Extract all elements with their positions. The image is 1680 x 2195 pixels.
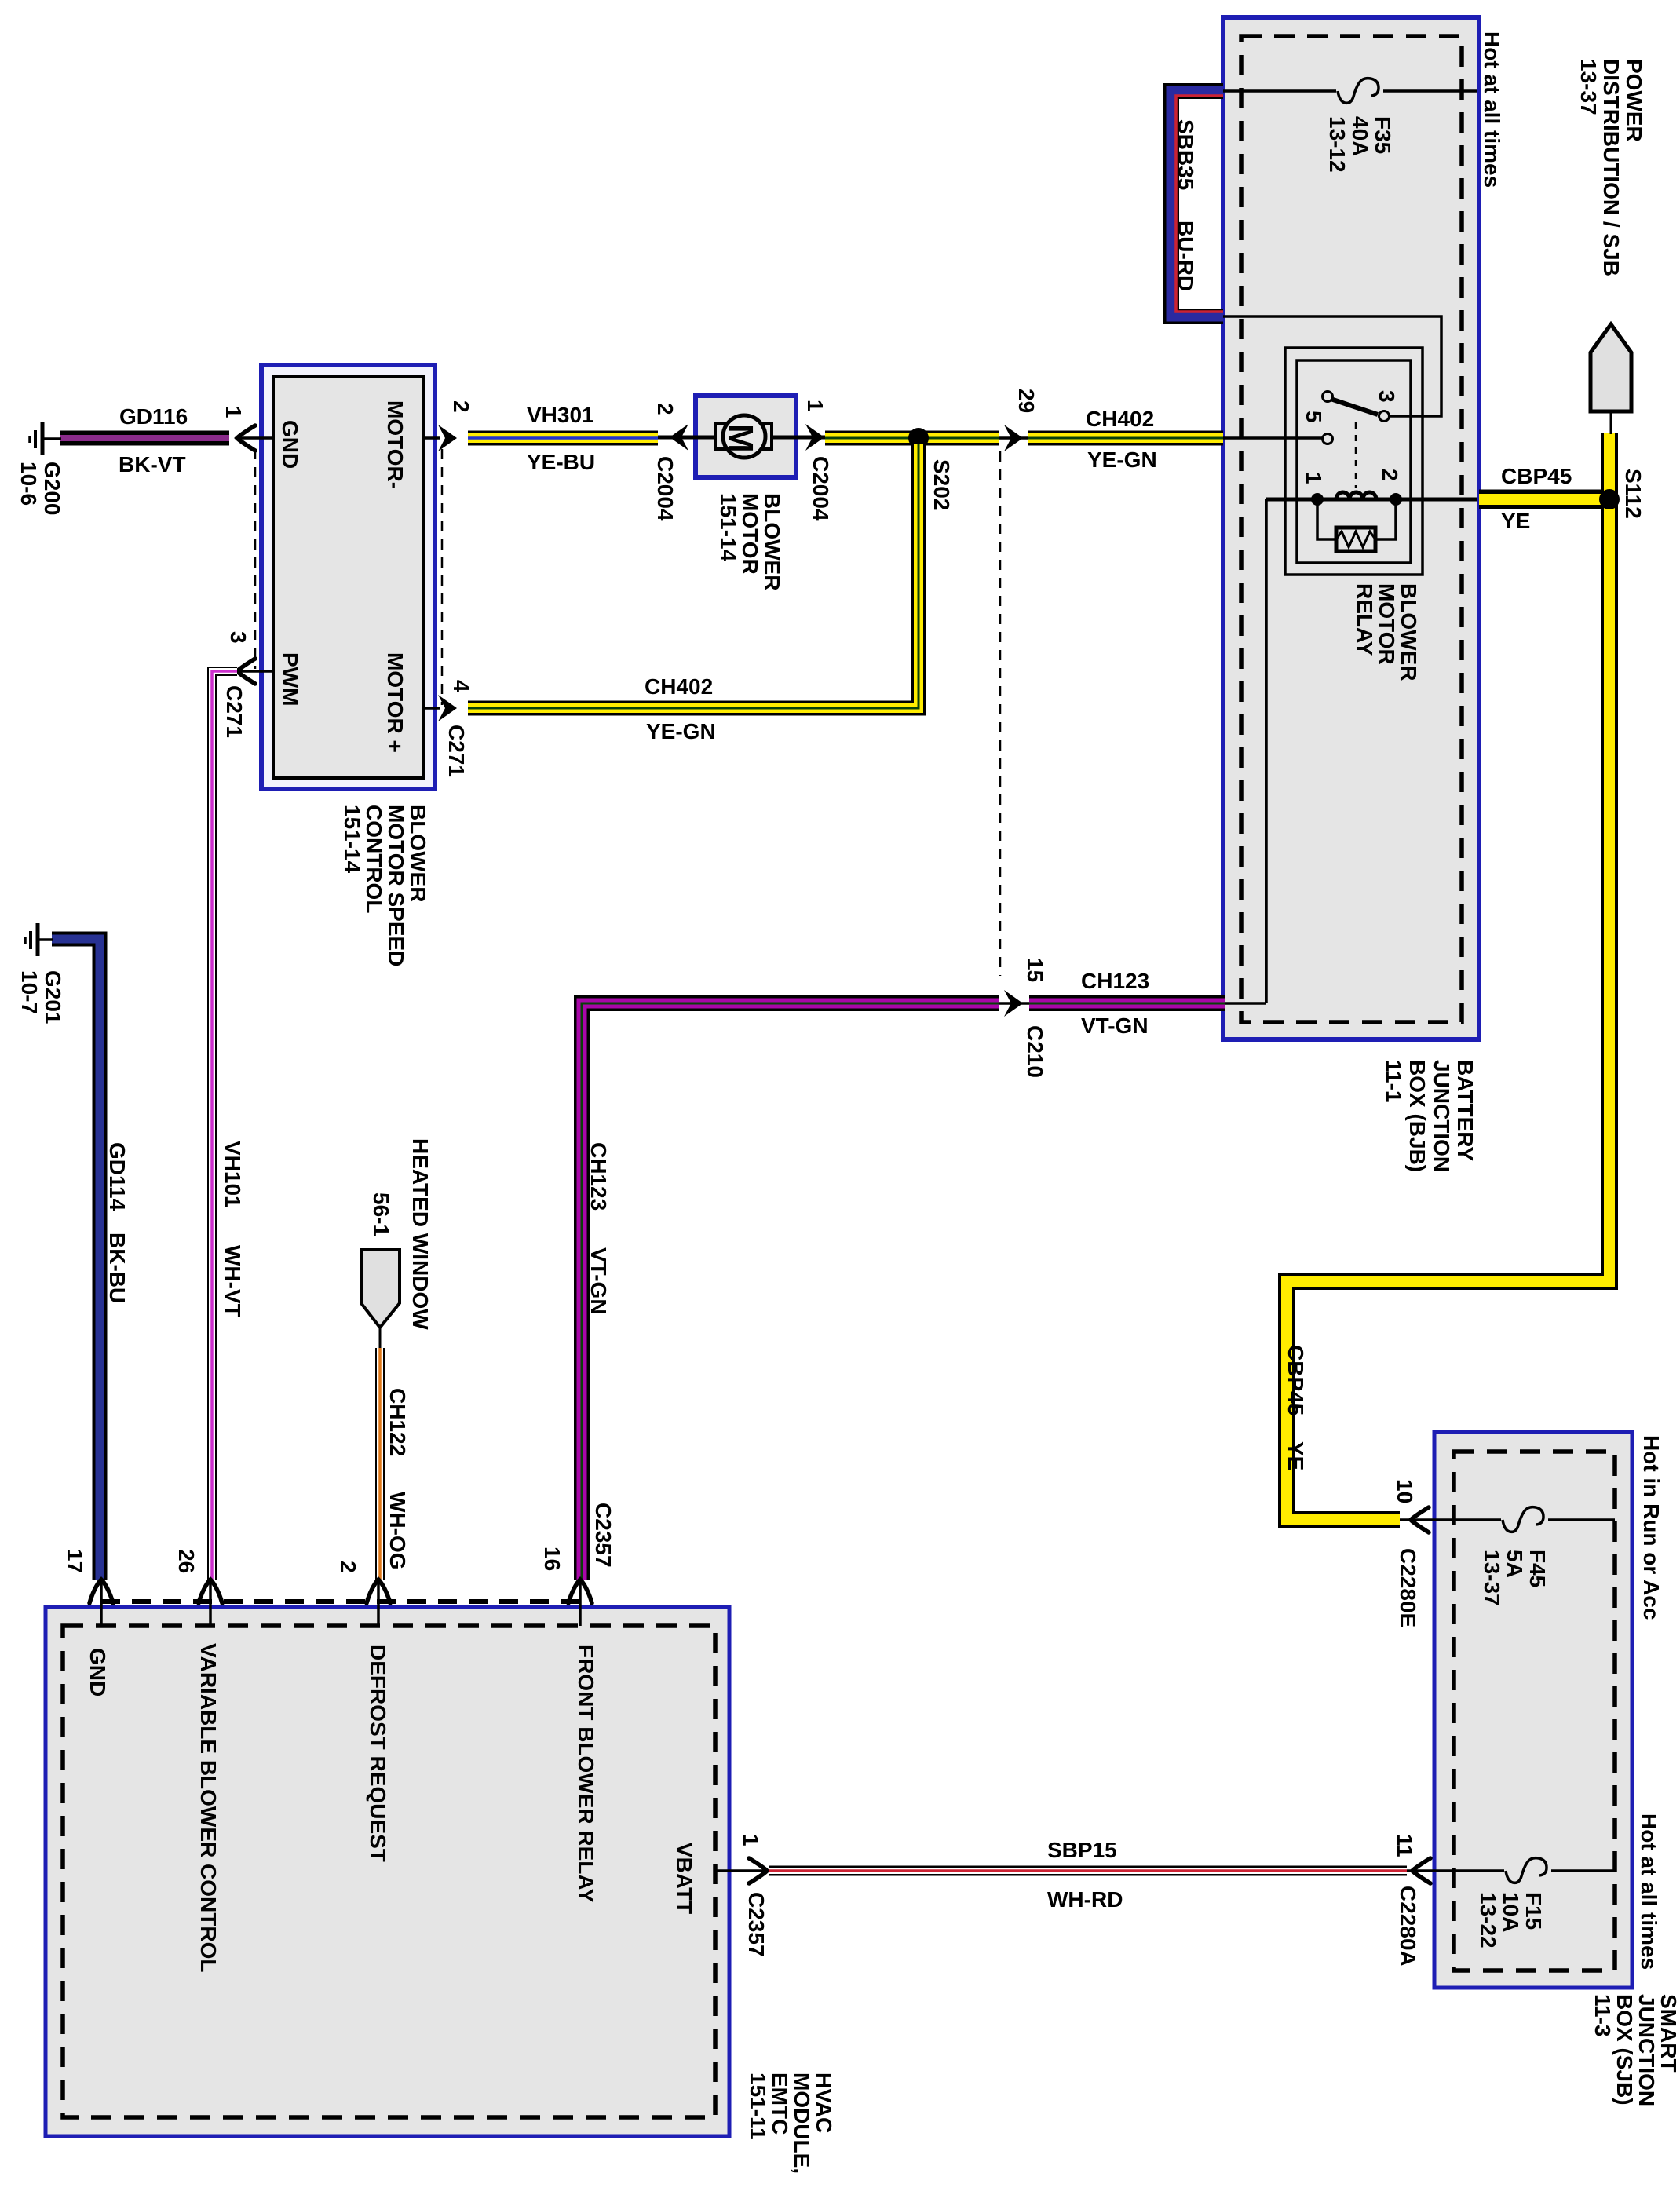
wire label CH402 YE-GN (at BJB) (1086, 407, 1157, 472)
wire: relay feed from SBB35 to relay pin 3 (1223, 316, 1441, 416)
svg-text:VBATT: VBATT (672, 1843, 696, 1914)
svg-text:MOTOR: MOTOR (1375, 583, 1399, 665)
svg-text:26: 26 (174, 1549, 199, 1573)
svg-text:BU-RD: BU-RD (1174, 221, 1198, 291)
svg-text:16: 16 (540, 1547, 564, 1571)
fuse F35 (1338, 79, 1379, 104)
wire: relay coil bus to CBP45 (1266, 498, 1477, 502)
battery junction box (BJB) outline (1223, 17, 1479, 1039)
svg-text:13-37: 13-37 (1576, 59, 1601, 115)
wire label GD116 BK-VT (119, 404, 188, 477)
svg-text:11-1: 11-1 (1382, 1060, 1406, 1103)
svg-text:BATTERY: BATTERY (1453, 1060, 1477, 1161)
svg-text:29: 29 (1014, 389, 1039, 413)
svg-text:3: 3 (1375, 390, 1399, 403)
svg-text:S112: S112 (1621, 469, 1645, 519)
svg-text:CBP45: CBP45 (1501, 464, 1572, 488)
wire label CH123 VT-GN (vertical) (586, 1142, 611, 1315)
svg-text:VH101: VH101 (221, 1141, 245, 1208)
connector C210 stem (999, 1002, 1029, 1005)
wire SBP15 WH-RD (769, 1866, 1407, 1876)
wire label CBP45 YE (vertical run) (1284, 1345, 1308, 1470)
connector arrow pin 26 (199, 1580, 222, 1603)
svg-text:MOTOR-: MOTOR- (383, 400, 407, 489)
fuse F15 (1506, 1858, 1547, 1883)
svg-text:MOTOR +: MOTOR + (383, 652, 407, 753)
svg-text:VT-GN: VT-GN (1081, 1013, 1149, 1038)
pin 2 stem (377, 1580, 380, 1626)
svg-text:JUNCTION: JUNCTION (1430, 1060, 1454, 1172)
svg-text:F15: F15 (1521, 1892, 1546, 1930)
blower motor speed control box (261, 365, 435, 789)
svg-text:1: 1 (1302, 472, 1326, 484)
wire: relay coil return to CH123 (inside BJB) (1225, 499, 1266, 1003)
svg-text:YE-BU: YE-BU (527, 450, 595, 474)
svg-text:151-14: 151-14 (716, 493, 740, 562)
svg-text:SMART: SMART (1656, 1994, 1680, 2073)
svg-text:G200: G200 (40, 462, 64, 516)
svg-text:1: 1 (221, 406, 246, 418)
svg-text:CH123: CH123 (1081, 969, 1149, 993)
svg-text:YE-GN: YE-GN (646, 719, 716, 743)
blower motor brush (right) (759, 423, 772, 449)
svg-text:Hot in Run or Acc: Hot in Run or Acc (1639, 1435, 1664, 1620)
HVAC module box (46, 1607, 729, 2136)
relay switch pivot contact (1323, 392, 1333, 402)
svg-text:10-6: 10-6 (16, 462, 41, 506)
wire label CH123 VT-GN (horizontal) (1081, 969, 1149, 1038)
svg-text:CONTROL: CONTROL (362, 805, 386, 913)
connector arrow pin 2 (MOTOR-) (438, 425, 457, 451)
svg-text:C271: C271 (444, 725, 469, 777)
wire CBP45 YE main run (S112 down to SJB pin 10) (1287, 433, 1609, 1520)
wire label VH101 WH-VT (221, 1141, 245, 1317)
wire CH123 VT-GN (C210 into BJB) (1029, 995, 1225, 1011)
svg-text:F35: F35 (1371, 116, 1395, 154)
resistor (relay suppression) (1336, 528, 1375, 551)
svg-text:C2280E: C2280E (1396, 1548, 1420, 1627)
svg-text:PWM: PWM (278, 652, 302, 706)
motor label BLOWER MOTOR 151-14 (716, 493, 784, 590)
svg-text:G201: G201 (41, 970, 65, 1024)
svg-text:BLOWER: BLOWER (760, 493, 784, 590)
svg-text:13-12: 13-12 (1325, 116, 1349, 173)
wire label VH301 YE-BU (527, 403, 595, 474)
fuse F45 (1503, 1507, 1543, 1532)
svg-text:GND: GND (278, 420, 302, 469)
wire label CBP45 YE (horizontal) (1501, 464, 1572, 533)
svg-text:CH402: CH402 (1086, 407, 1154, 431)
svg-text:10-7: 10-7 (17, 970, 42, 1014)
motor internal leads (696, 436, 796, 440)
connector arrow pin 3 (PWM) (237, 659, 255, 684)
svg-text:5: 5 (1302, 411, 1326, 423)
svg-text:C271: C271 (222, 685, 247, 738)
wire label SBP15 WH-RD (1047, 1838, 1123, 1912)
svg-text:BOX (BJB): BOX (BJB) (1405, 1060, 1430, 1172)
svg-text:SBB35: SBB35 (1174, 119, 1198, 190)
wire SBB35 BU-RD loop (1171, 91, 1223, 316)
dashed takeout line from CH402 to C210 (999, 451, 1002, 976)
svg-text:C2004: C2004 (653, 456, 677, 521)
wire label CH122 WH-OG (385, 1388, 410, 1570)
svg-text:JUNCTION: JUNCTION (1634, 1994, 1659, 2106)
svg-text:10A: 10A (1499, 1892, 1523, 1932)
wire CBP45 YE (BJB to S112) (1479, 490, 1609, 509)
svg-text:5A: 5A (1503, 1550, 1527, 1578)
svg-text:Hot at all times: Hot at all times (1637, 1813, 1661, 1970)
svg-text:Hot at all times: Hot at all times (1480, 31, 1504, 188)
blower motor box (696, 396, 796, 477)
ground label G201 10-7 (17, 970, 65, 1024)
BJB label BATTERY JUNCTION BOX (BJB) 11-1 (1382, 1060, 1477, 1172)
svg-text:1: 1 (803, 400, 827, 412)
wire: pin 5 lead into relay (1223, 436, 1322, 440)
ground G201 (25, 923, 53, 956)
fuse F35 value label F35 40A 13-12 (1325, 116, 1395, 173)
motor external lead stubs (658, 436, 825, 440)
blower motor brush (left) (715, 423, 728, 449)
svg-text:GD116: GD116 (119, 404, 188, 429)
svg-text:BK-BU: BK-BU (105, 1233, 130, 1303)
svg-text:2: 2 (336, 1561, 360, 1573)
off-page connector to power distribution (S112 top) (1591, 324, 1631, 434)
relay coil (1336, 492, 1376, 499)
ground G200 (30, 422, 61, 455)
relay: blower motor relay outline (1285, 348, 1423, 575)
relay pin 3 contact (1379, 411, 1390, 422)
svg-text:17: 17 (63, 1549, 87, 1573)
svg-text:VH301: VH301 (527, 403, 594, 427)
splice S202 (908, 428, 929, 448)
svg-text:C210: C210 (1023, 1025, 1047, 1078)
pin 16 stem (579, 1580, 582, 1626)
svg-text:RELAY: RELAY (1353, 583, 1377, 656)
svg-text:F45: F45 (1525, 1550, 1550, 1587)
ground label G200 10-6 (16, 462, 64, 516)
svg-text:YE-GN: YE-GN (1087, 447, 1157, 472)
svg-text:HVAC: HVAC (812, 2073, 836, 2133)
wire VH101 WH-VT (212, 671, 237, 1580)
svg-text:11-3: 11-3 (1591, 1994, 1615, 2037)
svg-text:C2280A: C2280A (1396, 1886, 1420, 1967)
connector arrow pin 2 (367, 1580, 390, 1603)
svg-text:15: 15 (1023, 958, 1047, 982)
speed control label BLOWER MOTOR SPEED CONTROL 151-14 (340, 805, 430, 966)
wire CH402 YE-GN (motor to S202 to BJB pin 29) (825, 431, 1223, 446)
svg-text:M: M (721, 424, 760, 453)
connector arrow pin 4 (MOTOR +) (438, 695, 457, 721)
svg-text:10: 10 (1393, 1479, 1417, 1503)
connector C271 dashed line (right) (441, 449, 444, 705)
wire GD116 BK-VT (60, 431, 229, 446)
svg-text:YE: YE (1284, 1441, 1308, 1470)
wire: fused feed line in BJB (1223, 89, 1477, 93)
svg-text:3: 3 (226, 631, 250, 644)
POWER DISTRIBUTION / SJB 13-37 reference (1576, 59, 1646, 276)
off-page connector HEATED WINDOW 56-1 (361, 1250, 400, 1348)
svg-text:SBP15: SBP15 (1047, 1838, 1117, 1862)
pin 17 stem (100, 1580, 103, 1626)
relay armature dashed link (1355, 422, 1357, 488)
svg-text:CH402: CH402 (645, 674, 713, 699)
wire CH123 VT-GN (HVAC pin 16 up and right to C210) (582, 1003, 999, 1580)
svg-text:C2357: C2357 (591, 1503, 615, 1568)
svg-text:11: 11 (1393, 1834, 1417, 1857)
pin 1 stem (236, 436, 273, 440)
svg-text:EMTC: EMTC (768, 2073, 792, 2135)
svg-text:DISTRIBUTION / SJB: DISTRIBUTION / SJB (1599, 59, 1623, 276)
svg-text:4: 4 (449, 680, 473, 692)
blower motor armature circle (723, 415, 765, 458)
svg-text:2: 2 (449, 400, 473, 413)
wire label GD114 BK-BU (105, 1142, 130, 1303)
wire label SBB35 BU-RD (1174, 119, 1198, 291)
svg-text:MOTOR: MOTOR (738, 493, 762, 575)
svg-text:MODULE,: MODULE, (790, 2073, 814, 2174)
svg-text:HEATED WINDOW: HEATED WINDOW (408, 1138, 433, 1330)
svg-text:CH122: CH122 (385, 1388, 410, 1456)
svg-text:56-1: 56-1 (369, 1192, 393, 1236)
svg-text:151-11: 151-11 (746, 2073, 770, 2140)
svg-text:VT-GN: VT-GN (586, 1247, 611, 1315)
svg-text:C2357: C2357 (744, 1892, 769, 1957)
svg-text:BLOWER: BLOWER (1397, 583, 1421, 681)
connector arrow pin 16 (568, 1580, 592, 1603)
svg-text:BOX (SJB): BOX (SJB) (1612, 1994, 1637, 2106)
svg-text:VARIABLE BLOWER CONTROL: VARIABLE BLOWER CONTROL (196, 1643, 221, 1972)
connector arrow SJB pin 11 (1412, 1858, 1430, 1883)
svg-text:DEFROST REQUEST: DEFROST REQUEST (366, 1645, 390, 1862)
pin 3 stem (236, 670, 273, 673)
svg-text:GND: GND (86, 1648, 110, 1696)
fuse F45 value label F45 5A 13-37 (1480, 1550, 1550, 1606)
svg-text:CH123: CH123 (586, 1142, 611, 1211)
junction node at relay pin 1 (1311, 493, 1324, 506)
connector arrow C210 pin 15 (1004, 990, 1023, 1017)
svg-text:BK-VT: BK-VT (119, 452, 186, 477)
wire VH301 YE-BU (468, 431, 658, 446)
relay pin 5 contact (1323, 434, 1333, 444)
wire CH402 YE-GN (speed control pin 4 loop to S202) (468, 444, 919, 708)
svg-text:40A: 40A (1348, 116, 1372, 156)
fuse F15 value label F15 10A 13-22 (1476, 1892, 1546, 1948)
wire GD114 BK-BU (52, 939, 100, 1580)
svg-text:YE: YE (1501, 509, 1530, 533)
connector arrow VBATT pin 1 (749, 1858, 767, 1883)
svg-text:BLOWER: BLOWER (406, 805, 430, 902)
wire: fused feed line F15 (1407, 1869, 1615, 1872)
connector arrow pin 17 (89, 1580, 113, 1603)
smart junction box (SJB) outline (1434, 1432, 1632, 1988)
svg-text:2: 2 (653, 403, 677, 415)
resistor (relay suppression) branch wires (1317, 502, 1396, 539)
wire: fused feed line F45 (1400, 1518, 1615, 1521)
svg-text:13-22: 13-22 (1476, 1892, 1500, 1948)
svg-text:S202: S202 (929, 459, 954, 510)
svg-text:C2004: C2004 (809, 456, 833, 521)
wire label CH402 YE-GN (lower run) (645, 674, 716, 743)
connector arrow C2004 pin 1 (right of motor) (805, 424, 824, 451)
connector C271 dashed line (left) (254, 449, 257, 669)
VBATT pin stem (715, 1869, 768, 1872)
relay switch blade (1331, 399, 1378, 415)
svg-text:151-14: 151-14 (340, 805, 364, 874)
connector C-BJB pin 29 stem (999, 436, 1028, 440)
svg-text:1: 1 (739, 1834, 763, 1846)
junction node at relay pin 2 (1390, 493, 1402, 506)
svg-text:WH-VT: WH-VT (221, 1245, 245, 1317)
connector arrow SJB pin 10 (1411, 1507, 1429, 1532)
relay label BLOWER MOTOR RELAY (1353, 583, 1421, 681)
svg-text:WH-OG: WH-OG (385, 1492, 410, 1570)
svg-text:POWER: POWER (1622, 59, 1646, 142)
connector C2357 dashed harness line (101, 1599, 582, 1604)
svg-text:MOTOR SPEED: MOTOR SPEED (384, 805, 408, 966)
svg-text:WH-RD: WH-RD (1047, 1887, 1123, 1912)
wire CH122 WH-OG (375, 1348, 385, 1580)
pin 4 stem (424, 707, 440, 710)
svg-text:2: 2 (1378, 469, 1402, 481)
pin 2 stem (424, 436, 440, 440)
svg-text:FRONT BLOWER RELAY: FRONT BLOWER RELAY (574, 1645, 598, 1903)
svg-text:GD114: GD114 (105, 1142, 130, 1211)
pin 26 stem (209, 1580, 212, 1626)
splice S112 (1599, 489, 1620, 509)
HVAC label HVAC MODULE, EMTC 151-11 (746, 2073, 836, 2174)
SJB label SMART JUNCTION BOX (SJB) 11-3 (1591, 1994, 1680, 2106)
connector arrow C2004 pin 2 (left of motor) (670, 424, 688, 451)
svg-text:CBP45: CBP45 (1284, 1345, 1308, 1415)
svg-text:13-37: 13-37 (1480, 1550, 1504, 1606)
connector arrow into BJB pin 29 (1004, 425, 1023, 451)
connector arrow pin 1 (GND) (237, 425, 255, 451)
